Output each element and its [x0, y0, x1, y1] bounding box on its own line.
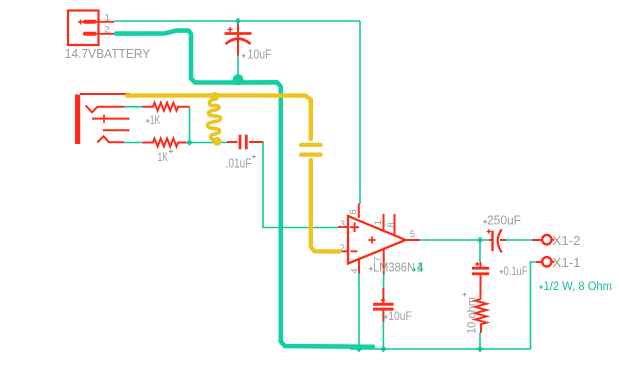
svg-text:10uF: 10uF	[248, 47, 272, 62]
wire: op-amp pin4 down to ground rail	[358, 273, 360, 349]
jack sleeve line	[80, 93, 130, 95]
yellow wire: C3 down to op-amp pin 2	[311, 160, 340, 252]
svg-text:4: 4	[349, 268, 360, 273]
svg-text:1: 1	[105, 13, 110, 24]
node: junction on top rail at C1 tap	[235, 18, 242, 25]
op-amp pin 4 stub	[358, 259, 360, 274]
battery pin 2 stub	[95, 33, 118, 35]
svg-text:X1-1: X1-1	[553, 256, 581, 270]
op-amp pin 5 stub	[406, 239, 421, 241]
C5 polarity tick	[475, 262, 479, 266]
wire: C6 bottom to ground rail	[382, 321, 384, 349]
svg-text:250uF: 250uF	[487, 214, 521, 228]
C2 origin cross	[252, 155, 256, 159]
U1 origin cross	[369, 266, 373, 271]
capacitor C6 10uF (bottom)	[373, 288, 394, 322]
wire: op-amp pin7 down to C6	[383, 274, 385, 291]
wire: teal stub C1 bottom to thick-wire junction	[237, 56, 239, 81]
audio jack J2 body bar	[75, 95, 80, 145]
C5 origin cross	[499, 270, 503, 274]
wire: jack tip to R1 (teal segment)	[124, 106, 142, 108]
connector X1-2	[542, 235, 551, 244]
node: thick teal junction blob	[233, 74, 244, 85]
C4 polarity tick	[487, 229, 491, 233]
svg-text:2: 2	[105, 25, 110, 36]
R2 origin cross	[169, 150, 173, 154]
node: ground junction C6	[380, 346, 387, 353]
jack ring line with origin cross	[92, 118, 130, 120]
wire: bottom ground rail	[350, 348, 531, 350]
op-amp pin 8 stub	[394, 214, 396, 235]
capacitor C1 10uF (top)	[225, 24, 252, 56]
resistor R3 10 ohm (vertical)	[475, 299, 486, 333]
jack tip contact (check)	[86, 105, 124, 112]
C1 polarity +	[228, 27, 233, 32]
wire: R2 to C2 input cap	[186, 142, 228, 144]
capacitor C5 0.1uF	[472, 262, 489, 299]
svg-text:1K: 1K	[158, 150, 169, 164]
jack switch line	[103, 129, 130, 131]
thick hand-drawn teal wire: battery pin2 to V+ junction, down and along bottom	[116, 31, 373, 347]
svg-text:10uF: 10uF	[388, 309, 412, 323]
svg-text:14.7VBATTERY: 14.7VBATTERY	[65, 46, 151, 61]
wire: op-amp output pin5 to output junction	[419, 239, 490, 241]
battery + mark	[78, 20, 83, 25]
svg-text:1: 1	[373, 220, 384, 225]
capacitor C2 .01uF	[227, 135, 263, 150]
capacitor C3 bottom plate	[301, 153, 321, 157]
svg-text:X1-2: X1-2	[553, 234, 581, 248]
C1 origin cross	[242, 54, 246, 58]
node: output junction	[477, 237, 484, 244]
svg-text:LM386N: LM386N	[373, 261, 415, 275]
node: yellow blob bottom	[213, 137, 222, 146]
wire: R1 right corner down to bottom net	[189, 107, 191, 143]
op-amp pin 6 stub	[358, 204, 360, 219]
R1 origin cross	[146, 119, 150, 123]
wire: X1-1 left and down to ground rail	[531, 262, 537, 349]
svg-text:10 ohm: 10 ohm	[464, 297, 478, 334]
C4 origin cross	[483, 220, 487, 224]
wire: C2 output to op-amp pin3 (corner run)	[250, 142, 338, 228]
op-amp center + mark	[369, 237, 376, 244]
svg-text:5: 5	[410, 229, 415, 240]
resistor R1 1K (top)	[142, 103, 189, 111]
svg-text:8: 8	[386, 222, 397, 227]
op-amp pin 3 stub	[338, 226, 348, 228]
svg-text:1K: 1K	[150, 113, 161, 127]
wire: output junction down to C5	[479, 240, 481, 262]
wire: jack lower contact to R2 (teal segment)	[124, 142, 142, 144]
R3 origin cross	[463, 293, 467, 297]
jack lower contact (peak)	[97, 136, 124, 142]
yellow squiggle wire: rail tap down to R1/R2 net	[207, 97, 220, 142]
gate mark 4 (teal)	[413, 268, 416, 271]
capacitor C3 (yellow, hand-drawn) top plate	[301, 143, 321, 147]
C6 polarity tick	[381, 298, 385, 302]
op-amp - input mark	[351, 250, 358, 252]
node: ground junction pin4	[356, 346, 363, 353]
wire: thin teal top rail from battery pin1 to x=360	[114, 20, 360, 22]
label 1/2 W, 8 Ohm (teal)	[539, 285, 543, 289]
node: ground junction R3	[477, 346, 484, 353]
battery pin 1 stub	[95, 21, 115, 23]
resistor R2 1K (bottom)	[142, 139, 186, 147]
node: junction R1/R2	[186, 139, 193, 146]
battery pin 1 bar	[85, 20, 95, 24]
op-amp pin 1 stub	[383, 214, 385, 230]
connector X1-1	[542, 257, 551, 266]
svg-text:3: 3	[340, 219, 345, 230]
svg-text:1/2 W, 8 Ohm: 1/2 W, 8 Ohm	[544, 281, 613, 293]
svg-text:.01uF: .01uF	[226, 155, 252, 170]
op-amp U1 LM386 triangle	[348, 216, 406, 264]
svg-text:6: 6	[348, 209, 359, 214]
thick hand-drawn yellow wire: jack to C3 and op-amp pin 2	[127, 95, 311, 139]
battery connector J1 box	[68, 11, 99, 46]
op-amp pin 7 stub	[383, 249, 385, 274]
wire: after C4 250uF to X1-2	[506, 239, 532, 241]
op-amp + input mark	[350, 223, 359, 233]
op-amp pin 2 stub	[338, 250, 348, 252]
wire: thin teal vertical from top rail down to op-amp pin 6	[359, 21, 361, 204]
svg-text:4: 4	[417, 260, 424, 274]
svg-text:0.1uF: 0.1uF	[504, 264, 528, 278]
battery pin 2 bar	[85, 32, 95, 36]
node: yellow blob top	[210, 92, 219, 101]
C6 origin cross	[384, 315, 388, 319]
wire: R3 bottom to ground rail	[479, 333, 481, 349]
capacitor C4 250uF (output coupling)	[489, 229, 506, 252]
